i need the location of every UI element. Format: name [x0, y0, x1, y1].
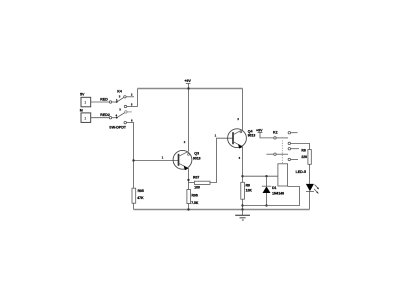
relay K2 pole 2 circle: [274, 153, 276, 155]
switch K4 throw pin 6: [124, 121, 126, 123]
svg-text:LED-5: LED-5: [296, 170, 306, 174]
svg-text:1: 1: [84, 101, 86, 105]
svg-text:K2: K2: [273, 131, 278, 135]
relay K2 linkage dashed: [281, 141, 283, 164]
junction R06 at rail: [187, 208, 189, 210]
relay K2 contact 1 stub: [288, 132, 290, 134]
wire rail down to Q4 collector: [242, 89, 244, 130]
switch K4 pole 2 arm: [117, 113, 125, 118]
wire rail to Q3 collector: [188, 89, 190, 152]
wire emitter to R07: [189, 182, 195, 184]
switch K4 pole 1 arm: [117, 97, 124, 102]
wire pin5 to +9V rail: [137, 89, 139, 107]
svg-text:7.5K: 7.5K: [191, 201, 199, 205]
transistor Q4 base bar: [232, 132, 234, 144]
svg-text:220: 220: [301, 155, 307, 159]
switch K4 pole 2 hinge: [109, 117, 111, 119]
svg-text:9013: 9013: [248, 134, 256, 138]
svg-text:RED2: RED2: [100, 113, 110, 117]
junction at diode loop bottom: [241, 204, 243, 206]
relay K2 contact 4 stub: [288, 158, 290, 160]
wire node to relay coil: [243, 175, 278, 177]
resistor R07 body: [194, 181, 210, 184]
wire R07 to riser: [210, 138, 233, 182]
svg-text:RED: RED: [100, 97, 108, 101]
LED D triangle: [306, 184, 314, 191]
relay K2 pole 2 stub: [266, 153, 273, 155]
svg-text:+9V: +9V: [256, 128, 263, 132]
junction switch pole dots: [116, 101, 118, 103]
transistor Q3 base bar: [178, 154, 180, 166]
svg-text:10K: 10K: [246, 188, 253, 192]
svg-text:5V: 5V: [80, 92, 85, 96]
diode D1 triangle: [263, 186, 271, 193]
svg-text:M: M: [80, 109, 83, 113]
diode D1 leads: [266, 176, 268, 186]
svg-text:1: 1: [84, 116, 86, 120]
wire Q4 emitter down: [242, 147, 244, 183]
svg-text:R9: R9: [246, 183, 250, 187]
junction base tee: [132, 159, 134, 161]
relay K2 coil box: [278, 164, 288, 186]
svg-text:47K: 47K: [137, 196, 144, 200]
transistor Q3 circle: [173, 150, 192, 169]
svg-text:K4: K4: [117, 90, 122, 94]
junction Q4 emitter node: [241, 175, 243, 177]
svg-text:100: 100: [194, 186, 200, 190]
ground symbol: [242, 210, 244, 216]
svg-text:R8: R8: [301, 149, 305, 153]
relay K2 contact 2 to R8: [288, 142, 290, 144]
svg-text:+9V: +9V: [184, 79, 191, 83]
svg-text:1N4148: 1N4148: [272, 192, 284, 196]
resistor R9 body: [241, 182, 245, 199]
transistor Q3 collector slant: [179, 151, 189, 156]
wire R9 to ground rail: [242, 199, 244, 209]
connector J1 box: [81, 97, 91, 107]
svg-text:R05: R05: [138, 189, 144, 193]
svg-text:9013: 9013: [193, 157, 201, 161]
LED arrows: [315, 185, 319, 189]
diode D1 cathode bar: [262, 185, 271, 187]
connector J1 pin wire: [91, 101, 110, 103]
resistor R05 body: [132, 188, 136, 203]
wire LED to ground rail: [309, 191, 311, 209]
transistor Q4 emitter slant: [233, 142, 242, 147]
resistor R06 body: [187, 190, 191, 204]
power +9V right bar: [258, 131, 263, 133]
switch K4 throw pin 2: [124, 96, 126, 98]
transistor Q4 collector slant: [233, 130, 242, 135]
LED cathode bar: [306, 190, 314, 192]
junction +9V tap: [187, 87, 189, 89]
svg-text:R07: R07: [193, 176, 199, 180]
relay K2 pole 1 circle: [274, 137, 276, 139]
junction ground at rail: [241, 208, 243, 210]
wire R06 to rail: [188, 204, 190, 210]
relay K2 pole 1 arm: [276, 137, 288, 139]
wire +9V stub down: [188, 84, 190, 89]
junction emitter node: [187, 179, 189, 181]
wire +9V to relay pole 1: [260, 132, 274, 138]
transistor Q4 circle: [228, 129, 247, 148]
resistor R8 body: [308, 150, 311, 165]
svg-text:SW-DPDT: SW-DPDT: [109, 125, 127, 129]
power +9V bar: [186, 83, 191, 85]
transistor Q4 emitter arrow: [238, 144, 243, 149]
transistor Q3 emitter slant: [179, 163, 189, 168]
switch K4 throw pin 5: [124, 105, 126, 107]
wire bottom ground rail: [134, 209, 310, 211]
svg-text:R06: R06: [192, 194, 198, 198]
junction diode bottom: [265, 204, 267, 206]
wire diode loop bottom: [243, 187, 300, 206]
connector J2 box: [81, 113, 91, 123]
wire R8 to LED: [309, 164, 311, 184]
svg-text:D1: D1: [272, 186, 276, 190]
wire +9V top rail: [138, 88, 243, 90]
junction diode top: [265, 175, 267, 177]
transistor Q3 emitter arrow: [184, 166, 189, 171]
switch K4 throw pin 3: [125, 111, 127, 113]
wire pin6 down to base node: [133, 123, 135, 210]
switch K4 pole 1 hinge: [109, 101, 111, 103]
wire Q3 emitter down: [188, 168, 190, 189]
svg-text:Q3: Q3: [194, 151, 199, 155]
relay K2 pole 2 arm: [276, 153, 288, 155]
connector J2 pin wire: [91, 117, 110, 119]
wire Q3 base: [134, 160, 179, 162]
relay K2 contact 3 stub: [288, 148, 290, 150]
